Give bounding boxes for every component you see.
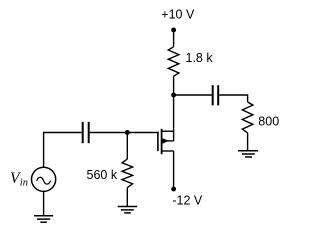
resistor RL 800 (load) — [242, 102, 253, 133]
capacitor C1 (input) — [83, 122, 89, 143]
transistor Q1 (MOSFET) — [158, 95, 174, 189]
source lead vertical — [173, 151, 175, 189]
ground (560k) — [118, 207, 138, 213]
channel bar — [161, 129, 163, 154]
wire from +10V dot to R1 top — [173, 30, 175, 47]
node dot drain — [171, 93, 176, 98]
sine wave inside source — [37, 177, 51, 184]
wire Vin to input capacitor — [44, 133, 82, 168]
ground (Vin) — [34, 216, 53, 223]
terminal dot at -12 V — [171, 187, 176, 192]
svg-text:in: in — [20, 177, 28, 188]
wire drain node to output capacitor — [174, 94, 212, 96]
svg-text:-12 V: -12 V — [172, 194, 203, 208]
wire capacitor to gate — [90, 132, 159, 134]
drain lead vertical — [173, 95, 175, 141]
wire junction down to 560k — [126, 133, 128, 160]
svg-text:1.8 k: 1.8 k — [186, 51, 214, 65]
ground (load) — [238, 151, 258, 157]
wire capacitor to load corner — [219, 95, 247, 102]
source stub — [162, 150, 174, 152]
body stub — [162, 140, 174, 142]
source Vin (AC source circle) — [31, 167, 55, 191]
svg-text:+10 V: +10 V — [161, 8, 195, 22]
wire from R1 bottom to drain node — [173, 76, 175, 95]
resistor R1 1.8 k — [168, 47, 179, 76]
node dot gate/560k junction — [125, 130, 130, 135]
body arrow — [163, 138, 169, 143]
svg-text:560 k: 560 k — [87, 168, 118, 182]
terminal dot at +10 V — [171, 28, 176, 33]
gate bar — [157, 132, 159, 152]
resistor R2 560 k — [122, 159, 133, 188]
wire Vin to ground — [43, 191, 45, 215]
wire 560k to ground — [126, 188, 128, 207]
capacitor C2 (output) — [213, 85, 219, 105]
drain stub — [162, 130, 174, 132]
svg-text:800: 800 — [258, 114, 279, 128]
wire 800 to ground — [247, 133, 249, 151]
